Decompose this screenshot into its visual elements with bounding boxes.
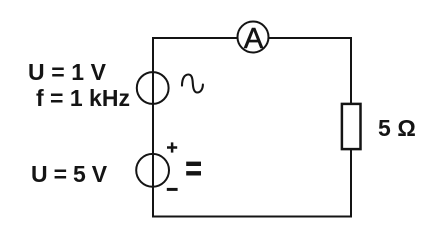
svg-text:U = 1 V: U = 1 V: [28, 59, 107, 85]
svg-text:f = 1 kHz: f = 1 kHz: [36, 85, 130, 111]
svg-text:5 Ω: 5 Ω: [378, 115, 416, 141]
svg-text:U = 5 V: U = 5 V: [31, 161, 108, 187]
svg-text:A: A: [244, 23, 264, 55]
